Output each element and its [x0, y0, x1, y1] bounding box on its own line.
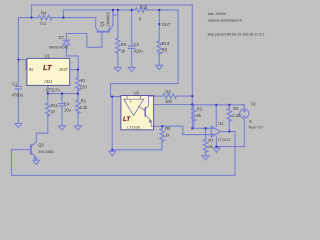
wire U3 emitter pin to R5 [154, 125, 163, 127]
svg-text:V2: V2 [251, 101, 257, 106]
wire U3 gnd column [111, 97, 113, 150]
diode D7 [65, 34, 67, 41]
resistor R7 column [205, 128, 207, 139]
svg-text:R2: R2 [81, 99, 87, 104]
resistor R13 column [157, 41, 162, 54]
svg-text:MMSD4148: MMSD4148 [49, 46, 68, 50]
voltage source V2 [243, 105, 245, 109]
wire bottom rail [12, 174, 236, 176]
wire R11 to Q3 collector [36, 133, 48, 142]
wire U2 plus input feed [162, 126, 211, 134]
ground U3 [109, 151, 116, 155]
resistor R9 column [117, 10, 119, 38]
svg-text:220: 220 [80, 85, 88, 90]
wire Q1 collector jog to R9 [113, 10, 118, 15]
capacitor C4 column [61, 94, 63, 104]
wire Q3 base [12, 150, 31, 176]
wire V2 bottom to U2 Vminus gnd [216, 146, 244, 148]
wire reference rail (R3 top) [194, 104, 245, 106]
resistor R12 (horizontal, in rail2) [135, 8, 146, 13]
svg-text:R12: R12 [140, 5, 148, 10]
svg-text:Rser=10: Rser=10 [249, 125, 263, 129]
resistor R5 column [161, 126, 163, 128]
wire rail2 left drop [62, 10, 64, 18]
wire U2 Vplus feed [215, 105, 217, 127]
svg-text:2SC4881: 2SC4881 [38, 150, 54, 154]
svg-text:Q3: Q3 [38, 143, 44, 148]
svg-text:.tran 1000m: .tran 1000m [207, 12, 226, 16]
resistor R1 column [77, 70, 79, 78]
svg-text:R7: R7 [208, 138, 214, 143]
svg-text:R5: R5 [165, 126, 171, 131]
svg-text:2N4403: 2N4403 [106, 12, 111, 27]
resistor R4 (horizontal zigzag) [38, 15, 52, 20]
ground R13 [156, 65, 163, 69]
svg-text:U3: U3 [134, 90, 140, 95]
svg-text:OUT: OUT [162, 22, 171, 27]
ground R2 [75, 126, 82, 130]
svg-text:100: 100 [165, 99, 173, 104]
spice directives [207, 12, 265, 36]
wire R4 row [18, 17, 38, 19]
svg-text:R4: R4 [41, 11, 47, 16]
svg-text:2.2k: 2.2k [80, 105, 89, 110]
ground C1 [15, 123, 22, 127]
svg-text:47: 47 [51, 110, 56, 115]
svg-text:R1: R1 [81, 78, 87, 83]
capacitor C1 plates [15, 85, 21, 87]
wire Vb from rail1 down [191, 5, 193, 128]
resistor R6 column [228, 105, 230, 109]
IC U1 LT317A box [27, 58, 70, 85]
ground U2 [213, 148, 220, 152]
wire U1 ADJ pin [47, 86, 49, 94]
svg-text:2.2k: 2.2k [232, 113, 241, 118]
svg-text:4700u: 4700u [12, 92, 23, 97]
resistor R8 (horizontal) [154, 95, 163, 97]
svg-text:IN: IN [29, 67, 33, 72]
svg-text:U1: U1 [45, 53, 51, 58]
svg-text:C1: C1 [12, 82, 18, 87]
svg-text:R13: R13 [162, 41, 170, 46]
wire D7 anode to OUT node [66, 56, 78, 70]
svg-text:LT: LT [123, 116, 131, 123]
svg-text:C4: C4 [64, 101, 70, 106]
wire Q1 base to D7 [66, 34, 102, 48]
wire U2 output row [220, 131, 235, 133]
wire gnd row to R5 [112, 142, 162, 150]
wire rail1 left drop to R4 [31, 5, 33, 18]
wire left input rail down [17, 18, 19, 87]
svg-text:.step param R3 list 1k 100 38: .step param R3 list 1k 100 38 12 6.3 [207, 32, 265, 36]
ground R9 [115, 67, 122, 71]
wire U2 Vminus down [215, 137, 217, 147]
wire U2 minus input row [192, 127, 211, 129]
svg-text:10u: 10u [64, 108, 71, 113]
wire IN branch to U1 [18, 60, 27, 70]
ground Q3 emitter [33, 160, 40, 164]
svg-text:{R}: {R} [162, 48, 168, 53]
svg-text:C2: C2 [134, 42, 140, 47]
transistor Q1 2N4403 (PNP, rotated) [95, 18, 97, 28]
wire U3 out pin row [154, 104, 193, 106]
svg-text:D7: D7 [59, 35, 65, 40]
ground R7 [202, 156, 209, 160]
svg-text:R9: R9 [121, 42, 127, 47]
svg-text:.options plotwinsize=0: .options plotwinsize=0 [207, 19, 242, 23]
wire ADJ rail [48, 93, 78, 95]
wire Vplus to U3 (from rail2) [111, 10, 179, 97]
svg-text:R6: R6 [233, 106, 239, 111]
resistor R2 column [77, 94, 79, 101]
svg-text:0.1: 0.1 [41, 21, 47, 26]
svg-text:R11: R11 [51, 103, 59, 108]
IC U3 comparator box [121, 96, 154, 130]
wire U1 OUT pin [70, 69, 78, 71]
resistor R11 column [47, 94, 49, 103]
svg-text:U2: U2 [218, 121, 224, 126]
svg-text:LT: LT [43, 63, 53, 72]
svg-text:LT1013: LT1013 [218, 137, 231, 142]
svg-text:R8: R8 [165, 89, 171, 94]
svg-text:R3: R3 [197, 106, 203, 111]
svg-text:OUT: OUT [59, 67, 68, 72]
svg-text:LT317A: LT317A [46, 88, 60, 93]
wire OUT column [158, 10, 160, 41]
svg-text:ADJ: ADJ [44, 79, 52, 84]
svg-text:LT1636: LT1636 [127, 125, 140, 129]
capacitor C2 column [131, 10, 133, 46]
wire U2 out down to bottom rail [234, 132, 236, 176]
resistor R3 column [193, 105, 195, 108]
ground C2 [128, 67, 135, 71]
wire rail2 (post-R4 net) [63, 9, 135, 11]
transistor Q3 2SC4881 (NPN) [30, 145, 32, 154]
ground C4 [59, 126, 66, 130]
wire rail1 top (Vin net) [32, 4, 193, 6]
svg-text:Q1: Q1 [99, 20, 104, 26]
op-amp U2 LT1013 [211, 126, 220, 137]
svg-text:410u: 410u [134, 48, 143, 53]
